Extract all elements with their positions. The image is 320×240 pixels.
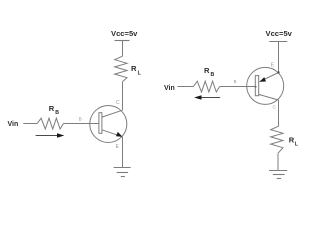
transistor Q1 emitter lead with arrow [102, 130, 123, 137]
svg-text:B: B [234, 79, 237, 84]
svg-text:R: R [131, 64, 137, 73]
current direction arrow (right, pointing left) [200, 97, 220, 99]
resistor RB (left, horizontal zigzag) [37, 118, 63, 129]
svg-text:R: R [49, 104, 55, 113]
svg-text:R: R [204, 66, 210, 75]
Vcc rail bar (right) [269, 41, 287, 43]
wire Vcc bar to emitter node [278, 42, 280, 73]
transistor Q1 circle [90, 106, 127, 143]
resistor RL (left, vertical zigzag) [115, 56, 127, 81]
transistor Q1 base bar [99, 113, 102, 134]
resistor RB (right, horizontal zigzag) [193, 81, 219, 92]
wire Vin to RB (right) [177, 86, 193, 88]
svg-text:B: B [79, 117, 82, 122]
svg-text:Vin: Vin [164, 85, 175, 92]
wire Vin to RB [23, 123, 37, 125]
svg-text:Vin: Vin [8, 121, 19, 128]
wire RL to ground (right) [277, 153, 279, 170]
svg-text:Vcc=5v: Vcc=5v [111, 29, 138, 38]
junction dot (right base) [255, 86, 257, 88]
wire RL to collector node [122, 82, 124, 110]
junction dot (right emitter node) [277, 71, 279, 73]
transistor Q2 base bar [255, 76, 258, 96]
svg-text:Vcc=5v: Vcc=5v [266, 29, 293, 38]
wire emitter to ground [122, 137, 124, 168]
Vcc rail bar (left) [115, 40, 130, 42]
svg-text:B: B [211, 72, 215, 78]
ground (right) [269, 170, 287, 172]
current direction arrow (left, pointing right) [36, 135, 59, 137]
resistor RL (right, vertical zigzag) [271, 126, 283, 153]
wire collector to RL (right) [278, 100, 280, 126]
transistor Q1 collector lead [102, 110, 123, 117]
wire RB to base [64, 123, 99, 125]
transistor Q2 collector lead [259, 95, 279, 101]
wire Vcc bar to RL [122, 41, 124, 57]
wire RB to base (right) [220, 86, 256, 88]
svg-text:B: B [55, 110, 59, 116]
svg-text:C: C [116, 100, 120, 106]
ground (left) [114, 167, 131, 169]
transistor Q2 emitter lead with inward arrow (PNP) [260, 73, 279, 82]
transistor Q2 circle [247, 67, 284, 104]
